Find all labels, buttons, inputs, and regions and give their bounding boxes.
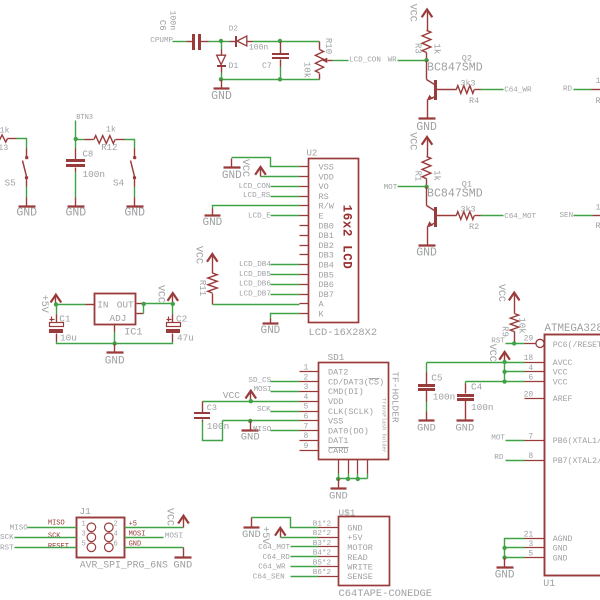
svg-text:DB1: DB1 xyxy=(319,231,334,241)
supply VCC at SD1 xyxy=(223,390,256,402)
transistor Q2 xyxy=(427,54,483,118)
svg-text:DAT1: DAT1 xyxy=(328,436,348,446)
supply VCC at J1 xyxy=(163,508,188,528)
svg-text:4: 4 xyxy=(303,393,308,402)
svg-text:4: 4 xyxy=(114,530,118,538)
wire LCD_DB6 xyxy=(239,281,300,289)
svg-text:47u: 47u xyxy=(177,332,194,343)
svg-text:R7: R7 xyxy=(596,221,600,231)
ground under SD1 xyxy=(329,479,348,503)
node B junction xyxy=(278,39,282,43)
svg-text:DB0: DB0 xyxy=(319,221,334,231)
svg-text:VCC: VCC xyxy=(192,246,203,264)
wire MISO to J1 xyxy=(10,524,77,532)
svg-text:DAT0(DO): DAT0(DO) xyxy=(328,426,369,436)
wire D1 to gnd rail xyxy=(221,73,223,80)
transistor Q1 xyxy=(427,180,483,245)
wire R13 to S5 xyxy=(17,139,27,157)
ground under S5 xyxy=(16,207,37,220)
svg-text:IN: IN xyxy=(97,300,108,311)
svg-text:BC847SMD: BC847SMD xyxy=(427,188,483,201)
svg-text:SD1: SD1 xyxy=(328,352,345,363)
wire S4 to ground xyxy=(134,180,136,206)
resistor R3 xyxy=(412,30,441,60)
ground under SD VCC xyxy=(241,421,260,444)
svg-text:MISO: MISO xyxy=(10,524,29,532)
node BTN3 junction xyxy=(74,137,78,141)
svg-text:VCC: VCC xyxy=(223,390,241,401)
svg-text:S4: S4 xyxy=(113,178,125,189)
resistor R2 xyxy=(456,205,480,233)
capacitor C3 xyxy=(194,402,229,433)
svg-text:GND: GND xyxy=(329,490,348,502)
svg-text:VO: VO xyxy=(319,182,329,192)
svg-text:TF-HOLDER: TF-HOLDER xyxy=(389,371,400,423)
svg-text:R5: R5 xyxy=(596,96,600,106)
svg-text:3k3: 3k3 xyxy=(461,78,476,88)
svg-text:LCD_DB6: LCD_DB6 xyxy=(239,281,271,289)
svg-text:VCC: VCC xyxy=(407,132,418,150)
svg-text:E: E xyxy=(319,212,324,222)
svg-text:5: 5 xyxy=(82,540,86,548)
svg-text:C64_WR: C64_WR xyxy=(258,564,286,572)
svg-text:ADJ: ADJ xyxy=(110,313,127,324)
capacitor C7 value xyxy=(249,43,269,52)
wire R2 to C64_MOT xyxy=(481,213,537,221)
svg-text:R12: R12 xyxy=(101,143,117,153)
wire RST net xyxy=(491,337,524,345)
svg-text:7: 7 xyxy=(303,422,308,431)
svg-text:C64_WR: C64_WR xyxy=(504,86,532,94)
svg-text:AVR_SPI_PRG_6NS: AVR_SPI_PRG_6NS xyxy=(80,560,168,571)
svg-text:5: 5 xyxy=(528,550,533,559)
wire D2 to node B xyxy=(253,41,281,43)
wire VSS row xyxy=(223,420,300,422)
svg-text:R/W: R/W xyxy=(319,202,335,212)
svg-text:C6: C6 xyxy=(157,20,167,31)
node GND3 junction xyxy=(502,546,506,550)
wire MOSI to pin3 xyxy=(254,386,300,394)
svg-text:VCC: VCC xyxy=(553,378,568,387)
svg-text:DB2: DB2 xyxy=(319,241,334,251)
svg-text:U1: U1 xyxy=(543,579,555,590)
wire AVCC rail xyxy=(427,362,525,364)
wire J1 MOSI out xyxy=(125,533,184,541)
svg-text:3k3: 3k3 xyxy=(461,205,476,215)
svg-text:GND: GND xyxy=(553,545,568,554)
svg-text:AREF: AREF xyxy=(553,395,573,404)
wire VDD xyxy=(261,176,300,178)
svg-text:PB6(XTAL1/TOSC1): PB6(XTAL1/TOSC1) xyxy=(553,436,600,446)
svg-text:10k: 10k xyxy=(516,317,526,333)
svg-text:GND: GND xyxy=(416,247,437,260)
svg-text:1: 1 xyxy=(303,364,308,373)
svg-text:D1: D1 xyxy=(229,62,239,71)
svg-text:VCC: VCC xyxy=(407,4,418,22)
svg-text:C5: C5 xyxy=(431,373,443,384)
svg-text:100n: 100n xyxy=(83,169,106,180)
supply +5V xyxy=(38,295,61,313)
op-amp J1 connector xyxy=(48,506,146,557)
capacitor C8 xyxy=(66,140,105,181)
svg-text:RD: RD xyxy=(494,454,504,462)
svg-text:3: 3 xyxy=(303,383,308,392)
wire C64_RD to B4 xyxy=(263,554,319,562)
svg-text:R13: R13 xyxy=(0,143,8,153)
svg-text:GND: GND xyxy=(495,569,515,581)
svg-text:GND: GND xyxy=(417,422,436,434)
wire B1 to ground xyxy=(252,518,319,528)
svg-text:1k: 1k xyxy=(106,124,116,134)
svg-text:18: 18 xyxy=(524,354,534,363)
resistor R13 xyxy=(0,125,17,152)
wire VCC vertical xyxy=(504,363,506,382)
wire AGND xyxy=(505,539,525,558)
svg-text:LCD_RS: LCD_RS xyxy=(243,192,271,200)
svg-text:C64TAPE-CONEDGE: C64TAPE-CONEDGE xyxy=(339,588,433,600)
svg-text:C8: C8 xyxy=(83,150,94,160)
svg-text:DB6: DB6 xyxy=(319,280,334,290)
svg-text:TransFlash holder: TransFlash holder xyxy=(380,398,386,453)
ground at U$1 xyxy=(242,528,261,542)
svg-text:+5V: +5V xyxy=(38,295,49,313)
wire VCC pin6 xyxy=(466,381,525,383)
wire SD_CS to pin2 xyxy=(248,377,299,385)
svg-text:GND: GND xyxy=(173,560,192,572)
svg-text:SD_CS: SD_CS xyxy=(248,377,271,385)
wire C64_MOT to B3 xyxy=(258,544,318,552)
wire SD bottom pins xyxy=(339,460,368,479)
capacitor C6 xyxy=(157,10,201,50)
node C junction xyxy=(219,77,223,81)
node +5V junction xyxy=(54,302,58,306)
svg-text:GND: GND xyxy=(202,217,222,229)
svg-text:R11: R11 xyxy=(197,280,207,296)
resistor R1 xyxy=(412,157,441,187)
op-amp IC1 regulator xyxy=(95,294,144,339)
wire B2 +5V xyxy=(281,537,319,539)
diode D2 xyxy=(222,26,253,48)
wire C3 to SD pin4 xyxy=(203,401,300,403)
wire RST to J1 xyxy=(0,545,77,553)
ground under D1 xyxy=(211,80,232,103)
wire R10 wiper LCD_CON xyxy=(333,57,381,65)
svg-text:MISO: MISO xyxy=(48,520,65,528)
resistor R7 partial xyxy=(593,202,600,231)
svg-text:BC847SMD: BC847SMD xyxy=(427,62,483,75)
resistor R11 xyxy=(197,273,217,305)
svg-text:8: 8 xyxy=(528,452,533,461)
svg-text:GND: GND xyxy=(553,554,568,563)
svg-text:MISO: MISO xyxy=(253,426,272,434)
svg-text:1k: 1k xyxy=(596,76,600,86)
wire MOT to PB6 xyxy=(491,435,524,443)
svg-text:GND: GND xyxy=(222,170,242,182)
potentiometer R10 xyxy=(302,38,334,80)
svg-text:D2: D2 xyxy=(229,26,239,34)
wire VSS to ground xyxy=(232,158,300,167)
supply VCC at R11 xyxy=(192,246,217,274)
svg-text:LCD_DB4: LCD_DB4 xyxy=(239,261,271,269)
svg-text:PB7(XTAL2/TOSC2): PB7(XTAL2/TOSC2) xyxy=(553,456,600,466)
wire LCD_RS to RS xyxy=(243,192,300,200)
svg-text:WRITE: WRITE xyxy=(347,563,373,573)
wire R11 to LCD A xyxy=(213,304,300,306)
wire S5 to ground xyxy=(26,180,28,206)
svg-text:100n: 100n xyxy=(433,391,456,402)
svg-text:2: 2 xyxy=(303,373,308,382)
wire MISO to pin7 xyxy=(253,426,300,434)
svg-text:VCC: VCC xyxy=(239,159,250,177)
resistor R12 xyxy=(76,124,125,153)
svg-text:C2: C2 xyxy=(176,313,187,324)
capacitor C2 xyxy=(166,304,194,344)
wire C8 to ground xyxy=(75,172,77,206)
text AVR_SPI_PRG_6NS xyxy=(80,560,168,571)
svg-text:VCC: VCC xyxy=(553,369,568,378)
wire GND pin3 xyxy=(505,547,525,549)
wire gnd rail xyxy=(222,79,320,81)
capacitor C4 xyxy=(457,382,494,420)
node IC1 OUT junction xyxy=(142,302,146,306)
pin PC6 inverted xyxy=(524,335,545,348)
svg-text:1k: 1k xyxy=(0,125,10,135)
svg-text:CLK(SCLK): CLK(SCLK) xyxy=(328,407,374,417)
wire VCC pin4 xyxy=(505,371,525,373)
svg-text:SCK: SCK xyxy=(257,406,271,414)
svg-text:RST: RST xyxy=(0,545,14,553)
supply VCC at R9 xyxy=(495,284,520,314)
wire LCD_DB7 xyxy=(239,291,300,299)
svg-text:GND: GND xyxy=(16,207,37,220)
svg-text:R2: R2 xyxy=(469,222,479,232)
svg-text:GND: GND xyxy=(105,355,125,367)
svg-text:LCD_DB7: LCD_DB7 xyxy=(239,291,271,299)
ground under C5 xyxy=(417,421,436,435)
svg-text:VCC: VCC xyxy=(154,285,165,303)
svg-text:R4: R4 xyxy=(469,96,479,106)
svg-text:C4: C4 xyxy=(471,382,483,393)
wire C64_SEN to B6 xyxy=(253,573,319,581)
svg-text:8: 8 xyxy=(303,432,308,441)
svg-text:MOT: MOT xyxy=(491,435,505,443)
node VCC junction xyxy=(171,302,175,306)
svg-text:16x2 LCD: 16x2 LCD xyxy=(339,205,353,270)
svg-text:GND: GND xyxy=(211,90,232,103)
node SD VCC junction xyxy=(249,399,253,403)
svg-text:WR: WR xyxy=(388,57,398,65)
wire OUT pins tied xyxy=(143,304,145,314)
wire BTN3 net xyxy=(76,114,94,139)
ground at LCD VSS xyxy=(222,159,242,183)
svg-text:1k: 1k xyxy=(431,170,441,181)
wire C64_WR to B5 xyxy=(258,564,318,572)
node SD bottom junctions xyxy=(336,477,360,481)
wire J1 GND xyxy=(125,548,184,557)
svg-text:AGND: AGND xyxy=(553,535,573,544)
wire +5V to IN xyxy=(57,304,95,306)
wire LCD_DB5 xyxy=(239,271,300,279)
svg-text:100n: 100n xyxy=(207,421,230,432)
svg-text:VCC: VCC xyxy=(486,344,497,362)
svg-text:U2: U2 xyxy=(307,149,318,159)
svg-text:2: 2 xyxy=(114,520,118,528)
svg-text:GND: GND xyxy=(65,207,86,220)
svg-text:+5V: +5V xyxy=(259,526,270,544)
svg-text:VDD: VDD xyxy=(328,397,343,407)
wire R/W to ground xyxy=(213,206,300,209)
ground under S4 xyxy=(124,207,145,220)
node Q2 collector junction xyxy=(424,58,428,62)
supply +5V at U$1 xyxy=(259,526,286,544)
svg-text:VSS: VSS xyxy=(328,417,343,427)
node RST junction xyxy=(512,341,516,345)
svg-text:29: 29 xyxy=(524,335,534,344)
svg-text:IC1: IC1 xyxy=(124,327,142,338)
wire C1 to gnd rail xyxy=(57,342,115,344)
svg-text:OUT: OUT xyxy=(117,300,134,311)
capacitor C5 xyxy=(418,363,455,420)
wire LCD K to ground xyxy=(271,314,300,323)
node SD gnd junction xyxy=(248,419,252,423)
svg-text:SCK: SCK xyxy=(48,532,61,540)
op-amp U2 16x2 LCD xyxy=(300,149,378,340)
wire RD net xyxy=(563,86,592,94)
svg-text:10k: 10k xyxy=(302,62,312,78)
svg-text:LCD_DB5: LCD_DB5 xyxy=(239,271,271,279)
svg-text:K: K xyxy=(319,310,325,320)
wire MOT to Q1 xyxy=(384,184,427,192)
capacitor C7 xyxy=(262,42,289,71)
svg-text:VCC: VCC xyxy=(495,284,506,302)
op-amp U1 ATMEGA328 xyxy=(524,323,600,590)
ground at LCD K xyxy=(260,324,280,338)
node A junction xyxy=(219,39,223,43)
wire SCK to pin5 xyxy=(257,406,300,414)
capacitor C1 xyxy=(49,305,77,344)
svg-text:20: 20 xyxy=(524,390,534,399)
ground under C8 xyxy=(65,207,86,220)
wire R4 to C64_WR xyxy=(481,86,532,94)
svg-text:+5V: +5V xyxy=(347,533,363,543)
svg-text:GND: GND xyxy=(260,325,280,337)
node Q1 collector junction xyxy=(424,185,428,189)
diode D1 xyxy=(217,42,239,73)
resistor R9 xyxy=(500,314,527,344)
supply VCC at U1 xyxy=(486,344,510,363)
svg-text:GND: GND xyxy=(416,121,437,134)
svg-text:1k: 1k xyxy=(431,43,441,54)
wire WR to Q2 collector node xyxy=(388,57,427,65)
switch S5 xyxy=(5,156,29,189)
svg-text:LCD_E: LCD_E xyxy=(248,212,271,220)
svg-text:21: 21 xyxy=(524,530,534,539)
svg-text:100n: 100n xyxy=(249,43,269,52)
svg-text:3: 3 xyxy=(528,540,533,549)
wire J1 +5 to VCC xyxy=(125,527,184,529)
node AVCC junction xyxy=(502,360,506,364)
wire GND pin5 xyxy=(505,557,525,559)
node VCC4 junction xyxy=(502,370,506,374)
switch S4 xyxy=(113,156,136,189)
svg-text:5: 5 xyxy=(303,403,308,412)
wire R12 to S4 xyxy=(125,140,135,157)
supply VCC at LCD VDD xyxy=(239,159,266,177)
svg-text:VCC: VCC xyxy=(163,508,174,526)
wire SCK to J1 xyxy=(0,534,77,542)
svg-text:GND: GND xyxy=(347,524,362,534)
ground at LCD R/W xyxy=(202,209,222,230)
wire OUT to VCC node xyxy=(144,303,173,305)
svg-text:A: A xyxy=(319,300,325,310)
ground under C4 xyxy=(455,421,474,435)
svg-text:CMD(DI): CMD(DI) xyxy=(328,387,364,397)
svg-text:LCD-16X28X2: LCD-16X28X2 xyxy=(309,327,378,339)
wire C7 to gnd rail xyxy=(280,67,282,80)
svg-text:R9: R9 xyxy=(500,326,510,337)
svg-text:DB4: DB4 xyxy=(319,261,334,271)
svg-text:RD: RD xyxy=(563,86,573,94)
svg-text:9: 9 xyxy=(303,442,308,451)
node GND5 junction xyxy=(502,555,506,559)
svg-text:LCD_CON: LCD_CON xyxy=(239,183,271,191)
svg-text:DB3: DB3 xyxy=(319,251,334,261)
svg-text:10u: 10u xyxy=(60,332,77,343)
svg-text:SENSE: SENSE xyxy=(347,572,373,582)
svg-text:SEN: SEN xyxy=(560,212,574,220)
svg-text:6: 6 xyxy=(114,540,118,548)
wire LCD_DB4 xyxy=(239,261,300,269)
svg-text:R1: R1 xyxy=(412,171,422,182)
svg-text:1k: 1k xyxy=(596,202,600,212)
svg-text:100n: 100n xyxy=(471,402,494,413)
svg-text:C64_SEN: C64_SEN xyxy=(253,573,285,581)
svg-text:3: 3 xyxy=(82,530,86,538)
svg-text:MOSI: MOSI xyxy=(254,386,272,394)
svg-text:GND: GND xyxy=(455,422,474,434)
supply VCC at IC1 xyxy=(154,285,178,304)
svg-text:J1: J1 xyxy=(80,506,92,517)
svg-text:DB7: DB7 xyxy=(319,290,334,300)
svg-text:1: 1 xyxy=(82,520,86,528)
svg-text:C64_MOT: C64_MOT xyxy=(504,213,536,221)
svg-text:6: 6 xyxy=(528,374,533,383)
svg-text:7: 7 xyxy=(528,432,533,441)
svg-text:C1: C1 xyxy=(59,313,71,324)
supply VCC at R1 xyxy=(407,132,433,156)
svg-text:AVCC: AVCC xyxy=(553,359,573,368)
wire C6 to node A xyxy=(201,41,222,43)
svg-text:S5: S5 xyxy=(5,178,17,189)
node VCC6 junction xyxy=(502,379,506,383)
wire C2 to gnd rail xyxy=(115,342,173,344)
wire ADJ to gnd rail xyxy=(114,332,116,344)
svg-text:VDD: VDD xyxy=(319,172,334,182)
resistor R4 xyxy=(456,78,480,106)
text C64TAPE-CONEDGE xyxy=(339,588,433,600)
wire SEN net xyxy=(560,212,593,220)
svg-text:ATMEGA328: ATMEGA328 xyxy=(545,323,600,335)
wire node B to R10 top xyxy=(281,41,320,43)
wire RD to PB7 xyxy=(494,454,524,462)
svg-text:R3: R3 xyxy=(412,43,422,54)
svg-text:GND: GND xyxy=(242,529,261,541)
svg-text:C64_MOT: C64_MOT xyxy=(258,544,290,552)
resistor R5 partial xyxy=(592,76,600,106)
svg-text:4: 4 xyxy=(528,364,533,373)
svg-text:READ: READ xyxy=(347,553,367,563)
wire LCD_E to E xyxy=(248,212,300,220)
